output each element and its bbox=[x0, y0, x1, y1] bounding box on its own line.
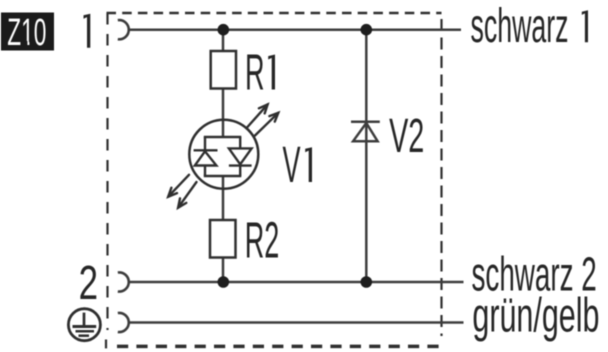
svg-text:V2: V2 bbox=[389, 110, 424, 163]
svg-text:schwarz: schwarz bbox=[471, 0, 569, 53]
svg-text:Z10: Z10 bbox=[7, 11, 46, 54]
svg-text:R2: R2 bbox=[245, 211, 280, 268]
svg-text:2: 2 bbox=[79, 255, 98, 309]
svg-text:R: R bbox=[245, 43, 265, 100]
svg-text:V: V bbox=[283, 136, 302, 193]
svg-text:grün/gelb: grün/gelb bbox=[472, 289, 599, 343]
